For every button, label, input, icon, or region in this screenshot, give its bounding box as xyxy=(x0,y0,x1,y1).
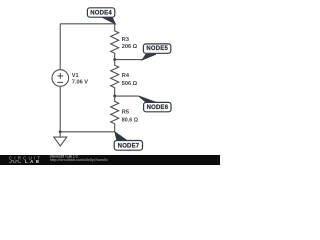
footer bar xyxy=(0,155,220,165)
resistor R4 xyxy=(111,60,119,97)
svg-text:V1: V1 xyxy=(72,73,79,79)
footer logo squarewave xyxy=(9,161,21,163)
svg-text:R5: R5 xyxy=(122,110,129,116)
node flag NODE5 xyxy=(142,44,170,60)
node flag NODE4 xyxy=(87,8,115,24)
wire: stub to NODE6 flag xyxy=(115,95,139,97)
svg-text:http://circuitlab.com/c6e6yr7u: http://circuitlab.com/c6e6yr7uaw5c xyxy=(50,158,108,162)
svg-text:NODE4: NODE4 xyxy=(90,10,112,16)
svg-text:NODE6: NODE6 xyxy=(147,105,169,111)
svg-text:506 Ω: 506 Ω xyxy=(122,81,138,87)
junction: bottom-left node xyxy=(59,130,62,133)
wire: left vertical above V1 xyxy=(59,24,61,70)
svg-text:R4: R4 xyxy=(122,73,130,79)
wire: below V1 down to ground node xyxy=(59,86,61,132)
node flag NODE7 xyxy=(114,132,142,150)
resistor R3 xyxy=(111,24,119,60)
svg-text:LAB: LAB xyxy=(25,159,41,164)
wire: top horizontal from V1 to R3 xyxy=(60,23,114,25)
resistor R5 xyxy=(111,96,119,132)
junction: node5 xyxy=(113,58,116,61)
svg-text:NODE7: NODE7 xyxy=(118,143,140,149)
wire: bottom horizontal from ground node to R5 xyxy=(60,131,114,133)
svg-text:80.6 Ω: 80.6 Ω xyxy=(122,118,139,124)
svg-text:R3: R3 xyxy=(122,37,129,43)
svg-text:NODE5: NODE5 xyxy=(146,46,168,52)
svg-text:206 Ω: 206 Ω xyxy=(122,44,138,50)
node flag NODE6 xyxy=(139,96,171,112)
junction: node6 xyxy=(113,95,116,98)
voltage source V1 xyxy=(52,70,69,87)
ground xyxy=(54,132,67,146)
wire: stub to NODE5 flag xyxy=(115,59,143,61)
svg-text:7.06 V: 7.06 V xyxy=(72,80,88,86)
